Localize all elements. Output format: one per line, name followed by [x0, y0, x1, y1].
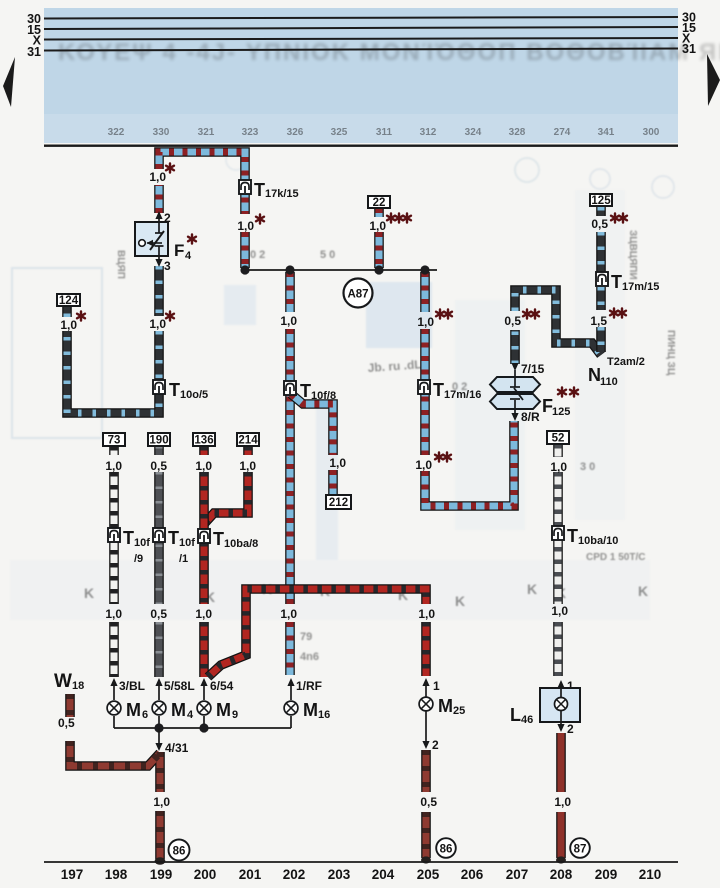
svg-text:10o/5: 10o/5 — [180, 389, 208, 401]
bus bar X — [44, 38, 678, 40]
terminal 214 — [237, 433, 259, 447]
terminal 125 — [590, 194, 612, 207]
svg-text:5/58L: 5/58L — [164, 679, 195, 693]
svg-text:274: 274 — [554, 127, 571, 138]
bus wire node A87 horizontal — [245, 269, 437, 271]
svg-text:190: 190 — [149, 435, 168, 447]
svg-text:323: 323 — [242, 127, 259, 138]
svg-text:87: 87 — [574, 844, 587, 856]
terminal 136 — [193, 433, 215, 447]
junction at terminal 22 leg — [374, 265, 383, 274]
connector T10f/9 — [108, 528, 150, 565]
svg-text:79: 79 — [300, 631, 312, 643]
ground symbol 87 — [570, 838, 590, 858]
svg-text:205: 205 — [417, 867, 440, 882]
F4 pin 3 — [155, 256, 171, 273]
svg-text:10f/8: 10f/8 — [311, 390, 336, 402]
svg-text:4n6: 4n6 — [300, 651, 319, 663]
svg-text:K: K — [638, 583, 648, 599]
svg-text:124: 124 — [59, 295, 79, 307]
wire white/black from terminal 73 via T10f/9 to M6 pin 3/BL — [113, 446, 115, 677]
wire label 1,0 terminal 136 top — [195, 459, 212, 473]
motor M6 with pin 3/BL — [107, 678, 148, 728]
wire blue/red from terminal 22 down to bus — [378, 208, 380, 268]
wire label 1,0 column 136 mid — [195, 607, 212, 621]
svg-text:0 2: 0 2 — [250, 249, 265, 261]
svg-text:18: 18 — [72, 680, 84, 692]
svg-text:330: 330 — [153, 127, 170, 138]
bottom rail — [44, 861, 678, 863]
sender W18 — [54, 671, 84, 692]
lamp L46 pins 1 and 2 — [510, 679, 580, 736]
F4 pin 2 — [155, 211, 171, 225]
wire label 0,5 W18 stub — [58, 716, 75, 730]
svg-text:326: 326 — [287, 127, 304, 138]
svg-text:3 0: 3 0 — [580, 461, 595, 473]
wire label 1,0 T17m/16 loop — [415, 452, 451, 472]
junction at T17k/15 leg — [240, 265, 249, 274]
wire red from M25 pin 2 down to ground 205 — [425, 750, 427, 858]
wire label 0,5 ground 205 — [420, 795, 437, 809]
bus bar 30 — [44, 17, 678, 19]
terminal 190 — [148, 433, 170, 447]
svg-text:2: 2 — [164, 211, 171, 225]
svg-text:210: 210 — [639, 867, 662, 882]
svg-text:ВЦЯП: ВЦЯП — [115, 250, 126, 279]
svg-text:1,0: 1,0 — [415, 458, 432, 472]
svg-text:1,0: 1,0 — [237, 219, 254, 233]
svg-text:T: T — [433, 380, 444, 400]
wire label 1,0 T10f/8 leg — [280, 314, 297, 328]
svg-text:202: 202 — [283, 867, 306, 882]
svg-text:22: 22 — [373, 197, 386, 209]
svg-text:110: 110 — [600, 376, 618, 388]
svg-text:1,0: 1,0 — [369, 219, 386, 233]
junction at T10f/8 leg — [285, 265, 294, 274]
svg-text:207: 207 — [506, 867, 529, 882]
wire label 1,0 terminal 52 top — [550, 460, 567, 474]
svg-text:K: K — [84, 585, 94, 601]
band bottom separator line — [44, 145, 678, 147]
svg-text:125: 125 — [552, 406, 570, 418]
svg-text:1,0: 1,0 — [153, 795, 170, 809]
connector T17k/15 — [239, 180, 299, 200]
motor earth bus — [114, 723, 291, 732]
svg-text:M: M — [216, 700, 231, 720]
svg-text:7/15: 7/15 — [521, 362, 545, 376]
svg-text:16: 16 — [318, 709, 330, 721]
bottom grid numbers 197-210 — [61, 867, 662, 882]
svg-text:0,5: 0,5 — [591, 217, 608, 231]
wire black/blue from F125 pin 7/15 to N110 T2am/2 — [515, 290, 601, 364]
ground symbol 86 left — [169, 840, 190, 861]
svg-text:3/BL: 3/BL — [119, 679, 145, 693]
svg-text:0,5: 0,5 — [58, 716, 75, 730]
svg-text:T2am/2: T2am/2 — [607, 356, 645, 368]
svg-text:T: T — [169, 380, 180, 400]
wire label 0,5 terminal 125 leg — [591, 213, 627, 231]
wire blue/red bus to T10f/8 down to M16 — [289, 272, 291, 675]
wire label 1,0 below T17k/15 — [237, 214, 264, 233]
svg-text:46: 46 — [521, 714, 533, 726]
svg-text:1,0: 1,0 — [239, 459, 256, 473]
terminal 212 — [326, 495, 351, 509]
svg-text:1: 1 — [433, 679, 440, 693]
svg-text:1,0: 1,0 — [280, 607, 297, 621]
wire blue/red branch from T10f/8 to terminal 212 — [291, 394, 333, 494]
svg-text:10f: 10f — [134, 537, 150, 549]
svg-text:197: 197 — [61, 867, 84, 882]
svg-text:1,0: 1,0 — [329, 456, 346, 470]
svg-text:1,0: 1,0 — [551, 604, 568, 618]
svg-text:25: 25 — [453, 705, 465, 717]
svg-text:4/31: 4/31 — [165, 741, 189, 755]
svg-text:1,0: 1,0 — [554, 795, 571, 809]
svg-text:W: W — [54, 671, 72, 692]
wire label 1,0 terminal 214 top — [239, 459, 256, 473]
svg-text:6/54: 6/54 — [210, 679, 234, 693]
svg-text:3: 3 — [164, 259, 171, 273]
wire label 1,0 terminal 212 leg — [329, 456, 346, 470]
svg-text:206: 206 — [461, 867, 484, 882]
svg-text:10ba/10: 10ba/10 — [578, 535, 618, 547]
connector T10o/5 — [153, 380, 208, 401]
svg-text:T: T — [567, 526, 578, 546]
svg-text:8/R: 8/R — [521, 410, 540, 424]
svg-text:T: T — [213, 529, 224, 549]
svg-text:T: T — [300, 381, 311, 401]
connector T10ba/8 — [198, 529, 258, 550]
svg-text:73: 73 — [108, 435, 121, 447]
svg-text:/9: /9 — [134, 553, 143, 565]
svg-text:0,5: 0,5 — [150, 607, 167, 621]
node A87 — [344, 279, 373, 308]
motor M16 with pin 1/RF — [284, 678, 330, 728]
terminal 22 — [368, 196, 390, 209]
svg-text:K: K — [455, 593, 465, 609]
bus bar 31 — [44, 49, 678, 51]
wire label 1,0 T10o/5 leg — [149, 311, 174, 331]
svg-text:212: 212 — [329, 497, 348, 509]
svg-text:1,0: 1,0 — [105, 459, 122, 473]
wire label 0,5 column 190 mid — [150, 607, 167, 621]
svg-text:125: 125 — [591, 195, 611, 207]
ground symbol 86 right — [436, 838, 456, 858]
connector T10ba/10 — [552, 526, 618, 547]
ground wire end 199 — [155, 857, 166, 865]
svg-text:1,0: 1,0 — [550, 460, 567, 474]
svg-text:4: 4 — [187, 709, 194, 721]
wire label 1,0 column M25 mid — [418, 607, 435, 621]
svg-text:199: 199 — [150, 867, 173, 882]
svg-text:F: F — [174, 241, 184, 260]
svg-text:136: 136 — [194, 435, 213, 447]
svg-text:31: 31 — [682, 42, 696, 56]
svg-text:17m/16: 17m/16 — [444, 389, 481, 401]
wire red/black from terminal 214 merging above T10ba/8 — [204, 446, 248, 524]
svg-text:214: 214 — [238, 435, 258, 447]
switch F4 — [135, 222, 196, 262]
svg-text:ЗЦВЦЯПИ: ЗЦВЦЯПИ — [627, 230, 638, 280]
wire label 1,0 ground 208 — [554, 795, 571, 809]
svg-text:T: T — [168, 528, 179, 548]
svg-text:17k/15: 17k/15 — [265, 188, 299, 200]
svg-text:5 0: 5 0 — [320, 249, 335, 261]
wire red stub below W18 — [69, 694, 71, 717]
relay N110 with pin T2am/2 — [588, 356, 645, 388]
svg-text:208: 208 — [550, 867, 573, 882]
terminal 124 — [57, 294, 80, 307]
wire black/blue from terminal 125 via T17m/15 to N110 — [600, 207, 602, 352]
svg-text:1,0: 1,0 — [195, 459, 212, 473]
svg-text:1,0: 1,0 — [418, 607, 435, 621]
svg-text:9: 9 — [232, 709, 238, 721]
svg-text:312: 312 — [420, 127, 437, 138]
svg-text:10ba/8: 10ba/8 — [224, 538, 258, 550]
svg-text:M: M — [438, 696, 453, 716]
svg-text:198: 198 — [105, 867, 128, 882]
svg-text:ΚΟΥΕΨ 4 -4Ј- ΥΠΝΙΟΚ ΜΟΝΊΌΘΟΠ: ΚΟΥΕΨ 4 -4Ј- ΥΠΝΙΟΚ ΜΟΝΊΌΘΟΠ ΒΟΘΟΒΊΙΑΜ Я… — [58, 39, 720, 66]
svg-text:6: 6 — [142, 709, 148, 721]
terminal 73 — [103, 433, 125, 447]
wire label 1,0 terminal 22 leg — [369, 213, 411, 233]
svg-text:311: 311 — [376, 127, 393, 138]
svg-text:300: 300 — [643, 127, 660, 138]
svg-text:325: 325 — [331, 127, 348, 138]
svg-text:321: 321 — [198, 127, 215, 138]
wire label 1,0 column M16 mid — [280, 607, 297, 621]
connector T17m/16 — [418, 380, 481, 401]
left page arrow — [3, 57, 15, 107]
ground wire end 205 — [421, 856, 431, 863]
junction at T17m/16 leg — [420, 265, 429, 274]
wire blue/red hood loop via T17k/15 to node A87 — [159, 152, 245, 268]
svg-text:/1: /1 — [179, 553, 188, 565]
svg-text:17m/15: 17m/15 — [622, 281, 659, 293]
svg-text:A87: A87 — [347, 289, 368, 301]
svg-text:L: L — [510, 705, 521, 725]
svg-text:0,5: 0,5 — [420, 795, 437, 809]
svg-text:0,5: 0,5 — [150, 459, 167, 473]
pin 4/31 — [155, 728, 188, 755]
wire label 1,0 column 73 mid — [105, 607, 122, 621]
svg-text:1,0: 1,0 — [60, 318, 77, 332]
wire label 1,5 N110 leg — [590, 308, 626, 328]
wire grey from terminal 190 via T10f/1 to M4 pin 5/58L — [158, 446, 160, 677]
motor M9 with pin 6/54 — [197, 678, 238, 728]
svg-text:0,5: 0,5 — [504, 314, 521, 328]
fuse F125 — [490, 370, 578, 418]
wire label 1,0 terminal 73 top — [105, 459, 122, 473]
svg-text:1,0: 1,0 — [417, 315, 434, 329]
svg-text:204: 204 — [372, 867, 395, 882]
svg-text:31: 31 — [27, 45, 41, 59]
svg-text:T: T — [123, 528, 134, 548]
svg-text:328: 328 — [509, 127, 526, 138]
svg-text:1,0: 1,0 — [149, 317, 166, 331]
ground wire end 208 — [556, 856, 566, 863]
svg-text:4: 4 — [185, 250, 192, 262]
F125 pin 7/15 — [511, 362, 544, 376]
connector T10f/1 — [153, 528, 195, 565]
wire blue/red bus via T17m/16 loop to F125 pin 8/R — [425, 272, 514, 506]
left terminal labels 30 15 X 31 — [27, 12, 42, 59]
right page arrow — [707, 54, 720, 106]
svg-text:201: 201 — [239, 867, 262, 882]
svg-text:M: M — [171, 700, 186, 720]
wire red/black from terminal 136 via T10ba/8 to M9 pin 6/54 — [203, 446, 205, 677]
svg-text:1/RF: 1/RF — [296, 679, 322, 693]
wire red/black link from M9 pin across to M25 pin 1 — [208, 589, 426, 677]
svg-text:K: K — [527, 581, 537, 597]
motor M25 pins 1 and 2 — [419, 678, 465, 752]
wire label 1,0 terminal 124 leg — [60, 311, 85, 332]
F125 pin 8/R — [511, 410, 540, 424]
svg-text:200: 200 — [194, 867, 217, 882]
svg-text:2: 2 — [432, 738, 439, 752]
right terminal labels 30 15 X 31 — [682, 11, 696, 57]
wire label 0,5 terminal 190 top — [150, 459, 167, 473]
svg-text:1,5: 1,5 — [590, 314, 607, 328]
svg-text:86: 86 — [173, 846, 186, 858]
svg-text:T: T — [611, 272, 622, 292]
svg-text:1,0: 1,0 — [149, 170, 166, 184]
svg-text:322: 322 — [108, 127, 125, 138]
svg-text:52: 52 — [552, 433, 565, 445]
svg-text:1,0: 1,0 — [280, 314, 297, 328]
svg-text:M: M — [303, 700, 318, 720]
wire black/blue from F4 pin 3 via T10o/5 to terminal 124 — [67, 266, 159, 413]
connector T17m/15 — [596, 272, 659, 293]
motor M4 with pin 5/58L — [152, 678, 195, 728]
wire label 1,0 hood loop left leg — [149, 163, 174, 184]
wire red from W18 joining 4/31 down to ground 199 — [70, 741, 160, 859]
svg-text:324: 324 — [465, 127, 482, 138]
svg-text:341: 341 — [598, 127, 615, 138]
wire label 1,0 column 52 mid — [551, 604, 568, 618]
terminal 52 — [547, 431, 569, 445]
svg-text:1,0: 1,0 — [105, 607, 122, 621]
wire label 1,0 T17m/16 leg — [417, 309, 452, 329]
svg-text:86: 86 — [440, 844, 453, 856]
svg-text:209: 209 — [595, 867, 618, 882]
svg-text:2: 2 — [567, 722, 574, 736]
top blue band — [44, 8, 720, 143]
wire solid red from L46 pin 2 down to ground 208 — [560, 733, 562, 858]
svg-text:203: 203 — [328, 867, 351, 882]
bus bar 15 — [44, 27, 678, 29]
svg-text:M: M — [126, 700, 141, 720]
svg-text:1,0: 1,0 — [195, 607, 212, 621]
wire white/grey from terminal 52 via T10ba/10 to L46 pin 1 — [557, 444, 559, 676]
svg-text:10f: 10f — [179, 537, 195, 549]
svg-text:CPD 1 50T/C: CPD 1 50T/C — [586, 552, 645, 563]
connector T10f/8 — [284, 381, 336, 402]
svg-text:T: T — [254, 180, 265, 200]
wire label 0,5 F125 leg — [504, 309, 539, 328]
wire label 1,0 ground 199 — [153, 795, 170, 809]
svg-text:ПИНЦ ЗЦ: ПИНЦ ЗЦ — [665, 330, 676, 376]
